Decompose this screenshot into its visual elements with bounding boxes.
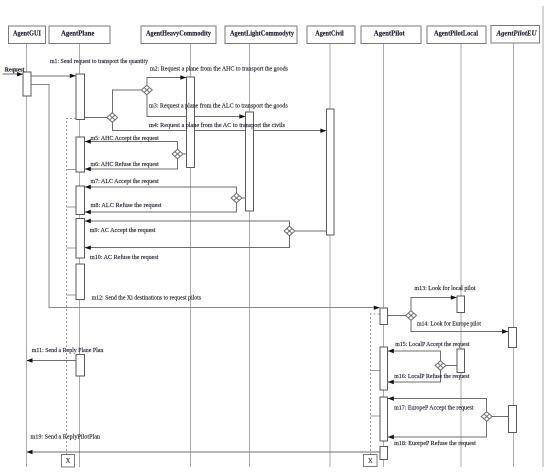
message m6 line xyxy=(85,159,178,169)
arrowhead m16 xyxy=(388,380,394,384)
stub link to AgentPlane bar 5 xyxy=(67,294,76,296)
svg-text:X: X xyxy=(368,457,373,464)
message m9 line xyxy=(85,221,290,226)
termination box AgentPlane xyxy=(62,455,75,468)
label m18 xyxy=(394,440,476,447)
header AgentHeavyCommodity xyxy=(141,26,216,44)
label m13 xyxy=(414,285,475,292)
arrowhead m9 xyxy=(85,219,91,223)
AgentPlane activation bar 2 xyxy=(76,137,85,172)
arrowhead m15 xyxy=(388,349,394,353)
svg-text:Request: Request xyxy=(5,68,25,74)
lifeline AgentPlane xyxy=(79,44,81,468)
connector D4 to ALC bar xyxy=(242,197,246,199)
svg-text:m18: EuorpeP Refuse the reque: m18: EuorpeP Refuse the request xyxy=(394,440,476,447)
connector D2 top to decision D1 xyxy=(112,90,141,113)
label m16 xyxy=(394,373,470,380)
svg-text:m3: Request a plane from the A: m3: Request a plane from the ALC to tran… xyxy=(149,103,289,110)
arrowhead m4 xyxy=(320,129,326,133)
header AgentPilotEU xyxy=(491,26,540,43)
arrowhead m3 xyxy=(239,114,245,118)
arrowhead m8 xyxy=(85,210,91,214)
svg-text:AgentLightCommodyty: AgentLightCommodyty xyxy=(230,30,295,37)
AgentPlane activation bar 3 xyxy=(76,186,85,215)
label m8 xyxy=(91,202,162,209)
AgentPilotLocal activation bar 2 xyxy=(457,349,465,373)
label m6 xyxy=(91,161,160,168)
message m18 line xyxy=(388,421,487,437)
svg-text:m13: Look for local pilot: m13: Look for local pilot xyxy=(414,285,475,292)
svg-text:m10: AC Refuse the request: m10: AC Refuse the request xyxy=(90,254,159,261)
AgentPilot activation bar 3 xyxy=(380,397,388,441)
AgentGUI activation bar xyxy=(23,72,31,96)
message m11 line xyxy=(27,360,76,362)
decision diamond D5 xyxy=(284,226,295,236)
svg-text:m12: Send the Xi destinations: m12: Send the Xi destinations to request… xyxy=(92,296,202,302)
message m4 line xyxy=(112,122,326,130)
decision diamond D2 xyxy=(107,113,118,123)
message m16 line xyxy=(388,370,441,382)
svg-text:m1: Send request to transport: m1: Send request to transport the quanti… xyxy=(50,59,148,65)
arrowhead m2 xyxy=(180,75,186,79)
svg-text:m5: AHC Accept the request: m5: AHC Accept the request xyxy=(91,136,160,142)
message m8 line xyxy=(85,203,237,212)
stub link to AgentPilot bar 2 xyxy=(371,369,381,371)
AgentPilotLocal activation bar 1 xyxy=(457,296,465,313)
message m7 line xyxy=(85,187,237,193)
svg-text:m16: LocalP Refuse the request: m16: LocalP Refuse the request xyxy=(394,373,470,380)
AgentHeavyCommodity activation bar xyxy=(187,77,195,168)
arrowhead m17 xyxy=(388,396,394,400)
AgentLightCommodyty activation bar xyxy=(246,112,254,211)
svg-text:m6: AHC Refuse the request: m6: AHC Refuse the request xyxy=(91,161,160,168)
svg-text:m19: Send a ReplyPilotPlan: m19: Send a ReplyPilotPlan xyxy=(31,435,101,441)
AgentPilot activation bar 1 xyxy=(380,308,388,325)
decision diamond D8 xyxy=(481,412,492,422)
stray right vertical line xyxy=(542,6,544,467)
AgentPlane activation bar 6 xyxy=(76,355,85,377)
label Request xyxy=(5,68,25,74)
arrowhead Request xyxy=(17,72,23,76)
AgentPilotEU activation bar 2 xyxy=(508,406,516,433)
message m19 line xyxy=(27,451,380,453)
arrowhead m1 xyxy=(70,74,76,78)
label m10 xyxy=(90,254,159,261)
lifeline AgentCivil xyxy=(329,44,331,468)
termination box AgentPilot xyxy=(364,455,378,467)
label m14 xyxy=(417,321,481,328)
label m15 xyxy=(395,342,470,348)
arrowhead m11 xyxy=(27,358,33,362)
header AgentGUI xyxy=(9,26,46,44)
message Request arrow line xyxy=(3,73,23,75)
decision diamond D3 xyxy=(172,149,183,159)
lifeline AgentPilot xyxy=(383,44,385,468)
lifeline AgentGUI xyxy=(25,44,27,468)
arrowhead m14 xyxy=(502,329,508,333)
svg-text:m15: LocalP Accept the request: m15: LocalP Accept the request xyxy=(395,342,470,348)
message m14 line xyxy=(411,320,508,331)
arrowhead m18 xyxy=(388,435,394,439)
dashed destroy link AgentPlane xyxy=(67,119,77,455)
label m9 xyxy=(90,228,156,234)
label m12 xyxy=(92,296,202,302)
lifeline AgentLightCommodyty xyxy=(249,44,251,468)
message m15 line xyxy=(388,351,441,361)
label m2 xyxy=(150,66,289,73)
arrowhead m13 xyxy=(451,295,457,299)
stub link to AgentPlane bar 2 xyxy=(67,168,76,170)
connector D3 to AHC bar xyxy=(183,153,187,155)
arrowhead m12 xyxy=(374,306,380,310)
arrowhead m6 xyxy=(85,167,91,171)
AgentPilot activation bar 4 xyxy=(380,447,388,460)
connector D7 to AgentPilotLocal bar xyxy=(446,365,457,367)
stub link to AgentPlane bar 4 xyxy=(67,247,76,249)
connector D8 to AgentPilotEU bar xyxy=(492,416,508,418)
svg-text:m14: Look for Europe pilot: m14: Look for Europe pilot xyxy=(417,321,481,328)
decision diamond D4 xyxy=(231,193,242,203)
AgentCivil activation bar xyxy=(327,109,335,235)
message m10 line xyxy=(85,236,290,248)
label m5 xyxy=(91,136,160,142)
svg-text:m4: Request a plane from the A: m4: Request a plane from the AC to trans… xyxy=(149,122,286,129)
AgentPlane activation bar 1 xyxy=(76,74,85,120)
header AgentCivil xyxy=(307,26,355,44)
AgentPilotEU activation bar 1 xyxy=(508,327,516,347)
message m12 elbow from AgentGUI xyxy=(31,85,379,308)
label m17 xyxy=(394,406,474,412)
decision diamond D1 xyxy=(141,85,152,95)
svg-text:AgentGUI: AgentGUI xyxy=(13,30,41,37)
label m19 xyxy=(31,435,101,441)
svg-text:X: X xyxy=(66,458,71,465)
connector AgentPilot bar to decision D6 xyxy=(388,315,406,317)
label m11 xyxy=(32,348,104,354)
label m3 xyxy=(149,103,289,110)
header AgentLightCommodyty xyxy=(225,26,297,44)
dashed destroy link AgentPilot xyxy=(371,314,380,455)
connector AgentPlane to decision D2 xyxy=(85,117,107,119)
AgentPlane activation bar 5 xyxy=(76,264,85,300)
label m4 xyxy=(149,122,286,129)
svg-text:AgentPilotLocal: AgentPilotLocal xyxy=(434,30,478,37)
arrowhead m5 xyxy=(85,139,91,143)
message m13 line xyxy=(411,298,456,311)
svg-text:AgentPlane: AgentPlane xyxy=(61,30,95,37)
decision diamond D6 xyxy=(406,311,417,321)
svg-text:m2: Request a plane from the A: m2: Request a plane from the AHC to tran… xyxy=(150,66,289,73)
stub link to AgentPlane bar 3 xyxy=(67,206,76,208)
lifeline AgentHeavyCommodity xyxy=(190,44,192,468)
message m2 line xyxy=(147,78,186,86)
arrowhead m10 xyxy=(85,246,91,250)
lifeline AgentPilotEU xyxy=(513,44,515,468)
svg-text:m9: AC Accept the request: m9: AC Accept the request xyxy=(90,228,156,234)
label m7 xyxy=(91,179,160,185)
message m17 line xyxy=(388,399,487,412)
message m5 line xyxy=(85,142,178,150)
svg-text:m7: ALC Accept the request: m7: ALC Accept the request xyxy=(91,179,160,185)
header AgentPilot xyxy=(361,26,421,44)
connector D5 to AgentCivil bar xyxy=(295,230,327,232)
decision diamond D7 xyxy=(435,361,446,371)
svg-text:AgentPilotEU: AgentPilotEU xyxy=(495,30,537,37)
svg-text:AgentHeavyCommodity: AgentHeavyCommodity xyxy=(146,30,212,37)
svg-text:m11: Send a Reply Plane Plan: m11: Send a Reply Plane Plan xyxy=(32,348,104,354)
arrowhead m7 xyxy=(85,185,91,189)
label m1 xyxy=(50,59,148,65)
arrowhead m19 xyxy=(27,450,33,454)
AgentPilot activation bar 2 xyxy=(380,347,388,390)
svg-text:AgentPilot: AgentPilot xyxy=(374,30,406,37)
svg-text:m17: EuropeP Accept the reques: m17: EuropeP Accept the request xyxy=(394,406,474,412)
lifeline AgentPilotLocal xyxy=(460,44,462,468)
stub link to AgentPilot bar 3 xyxy=(371,415,381,417)
message m1 line xyxy=(31,75,75,77)
AgentPlane activation bar 4 xyxy=(76,219,85,259)
message m3 line xyxy=(147,95,245,117)
svg-text:AgentCivil: AgentCivil xyxy=(315,30,344,37)
header AgentPlane xyxy=(49,26,110,44)
svg-text:m8: ALC Refuse the request: m8: ALC Refuse the request xyxy=(91,202,162,209)
header AgentPilotLocal xyxy=(427,26,486,44)
